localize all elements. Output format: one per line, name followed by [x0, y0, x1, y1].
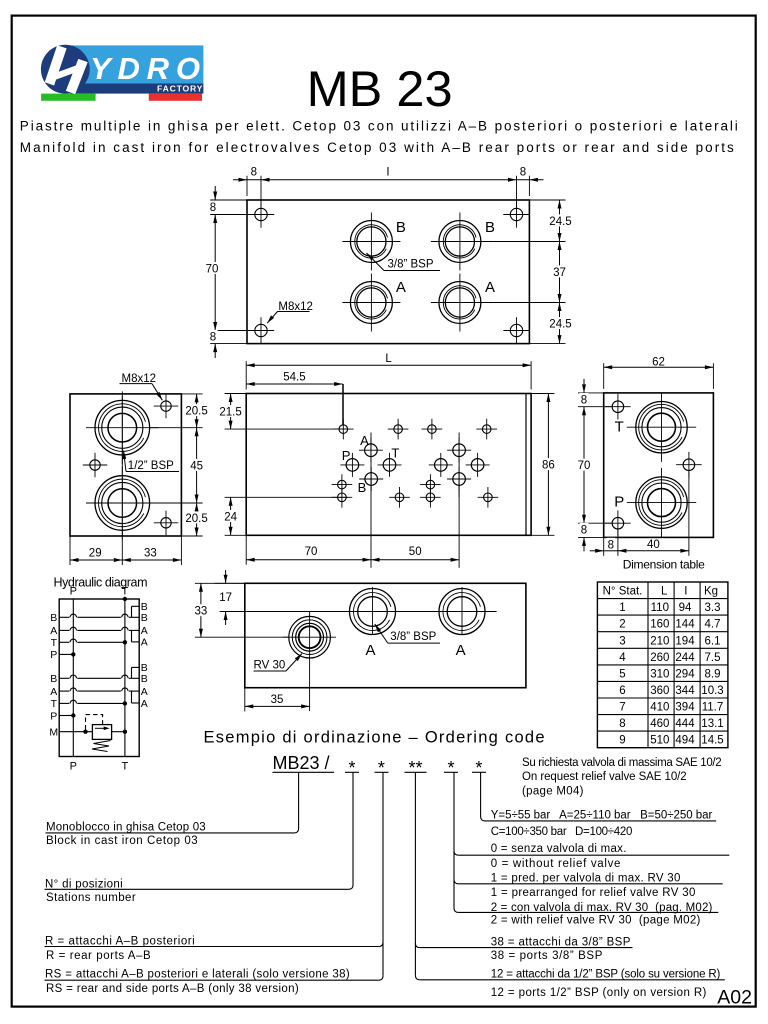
svg-text:210: 210	[650, 635, 669, 647]
svg-text:A: A	[141, 625, 148, 637]
svg-text:Dimension table: Dimension table	[623, 557, 705, 571]
svg-text:310: 310	[650, 668, 669, 680]
svg-text:510: 510	[650, 735, 669, 747]
svg-text:Y=5÷55 bar A=25÷110 bar B=: Y=5÷55 bar A=25÷110 bar B=50÷250 bar	[491, 809, 713, 821]
svg-text:160: 160	[650, 619, 669, 631]
svg-text:410: 410	[650, 702, 669, 714]
svg-text:Esempio di ordinazione – Order: Esempio di ordinazione – Ordering code	[204, 729, 545, 747]
svg-text:6.1: 6.1	[705, 635, 721, 647]
svg-text:MB 23: MB 23	[307, 60, 453, 117]
svg-text:38 = attacchi da 3/8” BSP: 38 = attacchi da 3/8” BSP	[491, 937, 631, 949]
svg-text:B: B	[141, 673, 148, 685]
svg-text:L: L	[661, 586, 668, 598]
svg-text:RS = rear and side ports A–B (: RS = rear and side ports A–B (only 38 ve…	[46, 983, 299, 995]
svg-text:MB23 /: MB23 /	[273, 753, 330, 773]
svg-text:7: 7	[619, 702, 625, 714]
svg-text:RS = attacchi A–B posteriori e: RS = attacchi A–B posteriori e laterali …	[45, 969, 350, 981]
svg-text:T: T	[122, 586, 129, 598]
svg-text:M: M	[49, 727, 58, 739]
svg-text:40: 40	[647, 539, 660, 551]
svg-text:C=100÷350 bar D=100÷420: C=100÷350 bar D=100÷420	[491, 826, 633, 838]
svg-text:20.5: 20.5	[185, 406, 207, 418]
svg-text:70: 70	[206, 264, 219, 276]
svg-text:35: 35	[271, 694, 284, 706]
svg-text:(page M04): (page M04)	[522, 785, 584, 797]
svg-text:T: T	[51, 637, 58, 649]
svg-text:Su richiesta valvola di massim: Su richiesta valvola di massima SAE 10/2	[522, 757, 722, 769]
svg-text:33: 33	[195, 606, 208, 618]
svg-text:Block in cast iron Cetop 03: Block in cast iron Cetop 03	[46, 835, 198, 847]
svg-text:144: 144	[675, 619, 695, 631]
svg-text:12 = attacchi da 1/2” BSP (sol: 12 = attacchi da 1/2” BSP (solo su versi…	[491, 969, 721, 981]
svg-text:8: 8	[581, 395, 587, 407]
svg-text:8: 8	[210, 331, 216, 343]
svg-text:7.5: 7.5	[705, 652, 721, 664]
svg-text:1 = prearranged for relief val: 1 = prearranged for relief valve RV 30	[491, 887, 696, 899]
svg-text:3: 3	[619, 635, 625, 647]
svg-text:70: 70	[578, 460, 591, 472]
svg-text:24.5: 24.5	[549, 216, 571, 228]
svg-text:N° Stat.: N° Stat.	[603, 586, 643, 598]
svg-text:294: 294	[675, 668, 695, 680]
svg-text:On request relief valve SAE 10: On request relief valve SAE 10/2	[522, 771, 687, 783]
svg-text:A: A	[396, 279, 406, 296]
svg-text:17: 17	[219, 592, 232, 604]
svg-text:5: 5	[619, 668, 625, 680]
svg-text:T: T	[51, 698, 58, 710]
svg-text:A: A	[360, 433, 369, 448]
svg-text:R = attacchi A–B posteriori: R = attacchi A–B posteriori	[45, 935, 195, 947]
svg-text:A: A	[50, 686, 57, 698]
svg-text:0 = senza valvola di max.: 0 = senza valvola di max.	[491, 843, 627, 855]
svg-text:29: 29	[89, 548, 102, 560]
svg-text:I: I	[386, 166, 389, 178]
svg-text:1/2” BSP: 1/2” BSP	[128, 460, 174, 472]
svg-text:B: B	[50, 612, 57, 624]
svg-text:8: 8	[608, 539, 614, 551]
svg-text:P: P	[342, 448, 351, 463]
svg-text:Monoblocco in ghisa Cetop 03: Monoblocco in ghisa Cetop 03	[46, 821, 206, 833]
svg-text:B: B	[358, 480, 367, 495]
svg-text:1: 1	[619, 602, 625, 614]
svg-text:8: 8	[581, 524, 587, 536]
svg-text:T: T	[391, 446, 399, 461]
svg-text:A: A	[141, 637, 148, 649]
svg-text:260: 260	[650, 652, 669, 664]
svg-text:50: 50	[409, 546, 422, 558]
svg-text:4.7: 4.7	[705, 619, 721, 631]
svg-text:B: B	[50, 673, 57, 685]
svg-text:N° di posizioni: N° di posizioni	[45, 879, 123, 891]
svg-text:A02: A02	[717, 986, 752, 1008]
svg-text:3.3: 3.3	[705, 602, 721, 614]
svg-text:A: A	[485, 279, 495, 296]
svg-text:62: 62	[652, 357, 665, 369]
svg-text:70: 70	[305, 546, 318, 558]
svg-text:33: 33	[144, 548, 157, 560]
svg-text:94: 94	[679, 602, 692, 614]
svg-text:444: 444	[675, 718, 695, 730]
svg-text:13.1: 13.1	[701, 718, 723, 730]
svg-text:11.7: 11.7	[702, 702, 724, 714]
svg-text:M8x12: M8x12	[122, 373, 157, 385]
svg-text:0 = without relief valve: 0 = without relief valve	[491, 858, 621, 870]
svg-text:FACTORY: FACTORY	[157, 83, 203, 93]
svg-text:14.5: 14.5	[701, 735, 723, 747]
svg-text:P: P	[70, 761, 77, 773]
svg-text:2: 2	[619, 619, 625, 631]
svg-text:194: 194	[675, 635, 695, 647]
svg-text:8.9: 8.9	[705, 668, 721, 680]
svg-text:3/8” BSP: 3/8” BSP	[388, 259, 434, 271]
svg-text:Kg: Kg	[704, 586, 718, 598]
svg-text:12 = ports 1/2” BSP (only on v: 12 = ports 1/2” BSP (only on version R)	[491, 987, 707, 999]
svg-text:R = rear ports A–B: R = rear ports A–B	[46, 950, 151, 962]
svg-text:A: A	[365, 642, 375, 659]
svg-text:B: B	[396, 219, 406, 236]
svg-text:8: 8	[520, 166, 526, 178]
svg-text:8: 8	[619, 718, 625, 730]
svg-text:2 = con valvola di max. RV 30: 2 = con valvola di max. RV 30 (pag. M02)	[491, 902, 713, 914]
svg-text:8: 8	[210, 202, 216, 214]
svg-text:P: P	[50, 710, 57, 722]
svg-text:2 = with relief valve RV 30 (: 2 = with relief valve RV 30 (page M02)	[491, 915, 701, 927]
svg-text:45: 45	[190, 460, 203, 472]
svg-text:*: *	[378, 758, 385, 778]
svg-text:1 = pred. per valvola di max.: 1 = pred. per valvola di max. RV 30	[491, 873, 681, 885]
svg-text:24: 24	[224, 511, 237, 523]
svg-text:344: 344	[675, 685, 695, 697]
svg-text:A: A	[50, 625, 57, 637]
svg-text:RV 30: RV 30	[254, 660, 286, 672]
svg-text:86: 86	[542, 460, 555, 472]
svg-text:P: P	[50, 649, 57, 661]
svg-text:P: P	[614, 493, 624, 510]
svg-text:24.5: 24.5	[549, 319, 571, 331]
svg-text:I: I	[684, 586, 687, 598]
svg-text:Hydraulic diagram: Hydraulic diagram	[54, 576, 148, 590]
svg-text:8: 8	[251, 166, 257, 178]
svg-text:360: 360	[650, 685, 669, 697]
svg-text:*: *	[475, 758, 482, 778]
svg-text:L: L	[385, 353, 392, 365]
svg-text:38 = ports 3/8” BSP: 38 = ports 3/8” BSP	[491, 950, 603, 962]
svg-text:A: A	[141, 698, 148, 710]
svg-text:A: A	[456, 642, 466, 659]
svg-text:10.3: 10.3	[701, 685, 723, 697]
svg-text:3/8” BSP: 3/8” BSP	[390, 631, 436, 643]
svg-text:21.5: 21.5	[219, 406, 241, 418]
svg-text:54.5: 54.5	[283, 372, 305, 384]
svg-text:4: 4	[619, 652, 626, 664]
svg-text:110: 110	[651, 602, 669, 614]
svg-text:A: A	[141, 686, 148, 698]
svg-text:6: 6	[619, 685, 625, 697]
svg-text:T: T	[122, 761, 129, 773]
svg-text:244: 244	[675, 652, 695, 664]
svg-text:460: 460	[650, 718, 669, 730]
svg-text:37: 37	[553, 267, 566, 279]
svg-text:494: 494	[675, 735, 695, 747]
svg-text:P: P	[70, 586, 77, 598]
svg-text:*: *	[348, 758, 355, 778]
svg-text:394: 394	[675, 702, 695, 714]
svg-text:T: T	[615, 419, 624, 436]
svg-text:Manifold in cast iron for elec: Manifold in cast iron for electrovalves …	[20, 140, 734, 155]
svg-text:9: 9	[619, 735, 625, 747]
svg-text:Stations number: Stations number	[46, 892, 136, 904]
svg-text:B: B	[141, 612, 148, 624]
svg-text:B: B	[485, 219, 495, 236]
svg-text:20.5: 20.5	[185, 513, 207, 525]
svg-text:Piastre multiple in ghisa per: Piastre multiple in ghisa per elett. Cet…	[20, 119, 738, 134]
